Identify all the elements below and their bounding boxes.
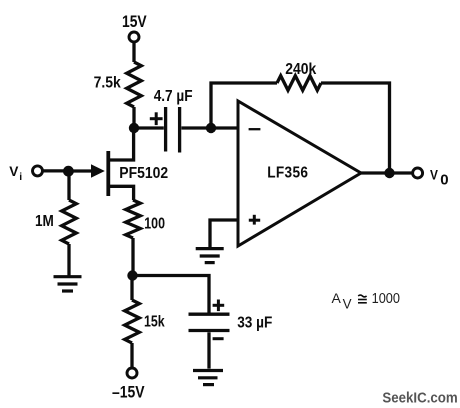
label V0 [430,166,449,188]
wire gate junction to JFET gate [69,169,100,172]
ground (op-amp + input) [196,249,224,263]
svg-text:V: V [9,164,19,179]
svg-text:1000: 1000 [372,290,401,306]
svg-text:15k: 15k [144,312,165,330]
plus sign of C 33uF [213,300,225,312]
plus sign non-inverting input [249,215,260,225]
svg-text:0: 0 [440,171,448,188]
wire op-amp output to node C [361,171,412,174]
svg-text:4.7 µF: 4.7 µF [154,88,193,105]
svg-text:LF356: LF356 [267,165,308,182]
wire node D to C 33uF [133,276,210,313]
wire R 100 to node D [131,238,134,276]
resistor 7.5k [127,62,142,107]
wire C 33uF to ground [207,332,210,368]
svg-text:240k: 240k [285,61,317,78]
transistor Q1 PF5102 channel bar [106,151,110,196]
plus sign of C 4.7uF [150,112,163,125]
svg-text:–15V: –15V [112,383,145,401]
svg-text:V: V [343,296,352,311]
resistor 1M [67,171,70,200]
wire node A to C 4.7uF [134,126,164,129]
wire 15V terminal to R 7.5k [132,43,135,62]
svg-text:A: A [332,290,342,306]
svg-text:PF5102: PF5102 [119,165,168,182]
wire R 7.5k to node A [132,107,135,128]
node A (drain node) [129,123,139,133]
ground (1M) [54,277,82,291]
op-amp U1 LF356 [238,101,361,246]
node gate junction [63,166,74,177]
wire C 4.7uF to node B [181,126,211,129]
node D (source node) [127,270,137,280]
resistor 15k [125,300,140,343]
wire feedback right and down to output node [321,83,390,173]
label Av approx 1000 [332,290,401,311]
wire Vi terminal to gate junction [43,169,69,172]
node C (output node) [384,168,394,178]
gate arrow of Q1 [91,164,105,177]
minus sign of C 33uF [213,337,224,340]
wire node B up to feedback [211,83,277,128]
svg-text:33 µF: 33 µF [237,315,272,332]
terminal V0 [413,168,423,178]
svg-text:i: i [19,171,22,183]
source lead of Q1 [108,186,133,200]
drain lead of Q1 [108,128,133,160]
resistor 100 [126,200,141,238]
terminal Vi [33,166,43,176]
wire node B to op-amp inverting input [211,126,238,129]
node B (inverting input node) [206,123,216,133]
wire op-amp non-inverting input to ground [210,220,238,247]
wire node D to R 15k [130,276,133,301]
svg-text:7.5k: 7.5k [94,75,122,92]
capacitor 33uF [189,314,230,330]
label Vi [9,164,22,183]
svg-text:V: V [430,166,438,182]
wire R 15k to -15V terminal [130,343,133,368]
capacitor 4.7uF [166,107,180,153]
svg-text:15V: 15V [122,13,147,31]
svg-text:SeekIC.com: SeekIC.com [382,390,457,407]
terminal +15V [129,32,139,42]
ground (33uF) [193,371,223,385]
svg-text:1M: 1M [35,213,54,230]
congruent sign of Av label [358,295,367,303]
terminal -15V [127,368,137,378]
svg-text:100: 100 [144,214,165,232]
wire R 1M to ground [67,244,70,276]
minus sign inverting input [249,128,261,130]
resistor 240k [277,76,321,91]
